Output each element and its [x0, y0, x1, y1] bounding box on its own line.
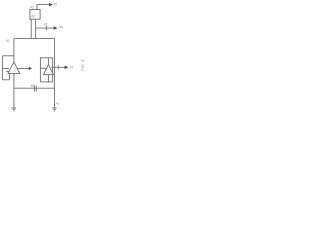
wire rail bottom	[2, 79, 9, 81]
svg-text:FIG. 4: FIG. 4	[80, 59, 85, 71]
svg-text:41: 41	[30, 4, 35, 9]
amplifier U2 enclosure box	[40, 58, 52, 82]
wire U1 left input stub	[2, 68, 9, 70]
resistor R1 (small box)	[6, 72, 9, 80]
svg-text:47: 47	[70, 66, 74, 70]
wire bus down right rail	[54, 39, 56, 108]
wire branch to output 2	[36, 27, 54, 29]
wire U2 below to box bottom	[47, 75, 49, 82]
capacitor C1	[34, 85, 36, 91]
svg-text:49: 49	[56, 101, 60, 105]
wire left rail	[1, 56, 3, 80]
arrowhead into U2	[29, 67, 32, 70]
wire bottom-left pin	[30, 19, 32, 38]
ground GND1	[12, 108, 16, 111]
crystal X1 (top box)	[30, 10, 40, 20]
label 41	[30, 4, 35, 9]
op-amp U1 (left triangle)	[8, 62, 20, 73]
svg-text:45: 45	[53, 3, 57, 7]
ground GND2	[52, 108, 56, 111]
wire U2 left input stub	[40, 67, 46, 69]
svg-text:46: 46	[59, 26, 63, 30]
label 47	[70, 66, 74, 70]
wire top-right pin up	[37, 5, 49, 10]
arrowhead output 1	[49, 3, 53, 7]
wire U1 output down	[13, 73, 15, 107]
svg-text:43: 43	[44, 22, 48, 26]
label 43	[44, 22, 48, 26]
caption FIG. 4	[80, 59, 85, 71]
label 46	[59, 26, 63, 30]
wire branch left	[2, 55, 14, 57]
wire U1 right stub to arrow	[17, 67, 29, 69]
arrowhead output 2	[54, 26, 58, 30]
wire bottom-right pin	[35, 19, 37, 38]
wire output 3	[51, 66, 65, 68]
svg-text:42: 42	[31, 14, 36, 19]
arrowhead output 3	[65, 66, 69, 70]
svg-text:40: 40	[6, 39, 10, 43]
label 42	[31, 14, 36, 19]
svg-text:48: 48	[30, 84, 34, 88]
terminal tick	[57, 65, 59, 69]
label 49	[56, 101, 60, 105]
wire bus	[14, 38, 55, 40]
label 45	[53, 3, 57, 7]
wire bus down to U1	[13, 39, 15, 63]
wire bottom branch	[14, 87, 55, 89]
terminal tick	[45, 26, 47, 30]
op-amp U2 (right triangle)	[47, 58, 49, 65]
label 48	[30, 84, 34, 88]
label 40	[6, 39, 10, 43]
